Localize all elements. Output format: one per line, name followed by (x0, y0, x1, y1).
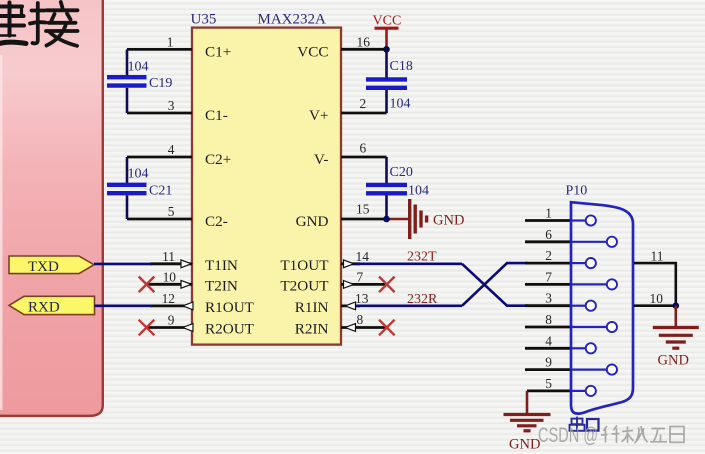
no-connect X on pin 8 (379, 320, 395, 336)
svg-text:3: 3 (168, 98, 175, 113)
pin 13 (R1IN) stub (341, 291, 369, 310)
svg-text:1: 1 (167, 34, 174, 49)
wire T1OUT to crossover (356, 262, 462, 265)
svg-text:15: 15 (356, 202, 370, 217)
pin 1 (C1+) stub (127, 34, 192, 49)
DB9 pin numbers (545, 206, 552, 391)
svg-text:C20: C20 (390, 165, 413, 180)
svg-text:7: 7 (545, 269, 552, 284)
label "chuan kou" (serial port) under P10, drawn strokes (570, 417, 599, 432)
heading text (partial) CJK "lian jie" drawn as strokes (0, 2, 78, 46)
capacitor C21 (107, 157, 172, 219)
pin 16 (VCC) stub (341, 34, 387, 49)
svg-text:R1IN: R1IN (295, 299, 329, 316)
svg-text:T2IN: T2IN (205, 277, 238, 294)
svg-text:V+: V+ (309, 107, 329, 124)
title panel (0, 0, 103, 416)
svg-text:4: 4 (168, 142, 175, 157)
svg-text:11: 11 (162, 249, 175, 264)
svg-text:C1-: C1- (205, 107, 228, 124)
svg-text:8: 8 (357, 312, 364, 327)
wire RXD to pin 12 (95, 304, 153, 307)
svg-text:TXD: TXD (28, 259, 59, 275)
svg-text:V-: V- (314, 151, 329, 168)
wire TXD to pin 11 (94, 263, 152, 266)
svg-text:4: 4 (545, 333, 552, 348)
crossover wire 232R to DB9 pin 2 (462, 263, 528, 306)
pin 2 (V+) stub (341, 96, 387, 113)
svg-text:R2IN: R2IN (295, 321, 329, 338)
svg-text:6: 6 (360, 141, 367, 156)
capacitor C20 (366, 157, 429, 219)
pin 14 (T1OUT) stub (341, 249, 369, 268)
svg-text:7: 7 (357, 269, 364, 284)
watermark CSDN @ zhuqiuwuri (538, 424, 684, 447)
svg-text:5: 5 (168, 204, 175, 219)
svg-text:13: 13 (355, 291, 369, 306)
wire DB9 pin 5 to ground (526, 391, 529, 414)
junction node at pin 16 / C18 / VCC (383, 46, 390, 53)
pin 9 (R2OUT) stub, no-connect (147, 313, 194, 332)
svg-text:5: 5 (545, 376, 552, 391)
capacitor C18 (366, 49, 413, 113)
svg-text:C2+: C2+ (205, 151, 231, 168)
pin 8 (R2IN) stub, no-connect (341, 312, 387, 331)
no-connect X on pin 10 (139, 277, 155, 293)
no-connect X on pin 9 (139, 320, 155, 336)
svg-text:1: 1 (545, 206, 552, 221)
no-connect X on pin 7 (379, 277, 395, 293)
wire DB9 pin 10 (634, 291, 676, 306)
junction node pins 10/11 (673, 302, 680, 309)
svg-text:RXD: RXD (28, 300, 60, 316)
svg-text:8: 8 (545, 312, 552, 327)
pin 3 (C1-) stub (127, 98, 192, 113)
svg-text:10: 10 (650, 291, 664, 306)
svg-text:9: 9 (168, 313, 175, 328)
pin 11 (T1IN) stub (150, 249, 192, 268)
pin 12 (R1OUT) stub (150, 291, 193, 310)
svg-text:GND: GND (296, 213, 329, 230)
power symbol VCC (373, 14, 402, 50)
port TXD (9, 256, 94, 275)
svg-text:104: 104 (128, 60, 149, 75)
pin 4 (C2+) stub (127, 142, 192, 157)
svg-text:R1OUT: R1OUT (205, 299, 255, 316)
svg-text:2: 2 (545, 248, 552, 263)
svg-text:3: 3 (545, 291, 552, 306)
svg-text:VCC: VCC (297, 43, 328, 60)
svg-text:12: 12 (162, 291, 175, 306)
svg-text:T1OUT: T1OUT (280, 257, 329, 274)
svg-text:104: 104 (128, 167, 149, 182)
svg-text:MAX232A: MAX232A (258, 12, 327, 28)
svg-text:11: 11 (651, 248, 664, 263)
svg-text:104: 104 (408, 184, 429, 199)
DB9 pin stubs (pins 1,6,2,7,3,8,4,9,5) (525, 221, 570, 391)
svg-text:16: 16 (357, 34, 371, 49)
port RXD (9, 296, 95, 315)
svg-text:U35: U35 (191, 12, 217, 28)
ground symbol right (DB9 pins 10/11) (653, 328, 699, 349)
svg-text:14: 14 (356, 249, 370, 264)
wire DB9 pin 11 (634, 248, 676, 305)
svg-text:10: 10 (163, 270, 177, 285)
pin 7 (T2OUT) stub, no-connect (341, 269, 387, 288)
svg-text:VCC: VCC (373, 14, 402, 29)
svg-text:P10: P10 (566, 184, 588, 199)
svg-text:2: 2 (360, 96, 367, 111)
ground symbol near pin 15 (sideways) (387, 199, 427, 239)
svg-text:GND: GND (433, 213, 464, 229)
crossover wire 232T to DB9 pin 3 (462, 264, 528, 306)
svg-text:232T: 232T (407, 250, 437, 265)
connector P10 body (DB9) (571, 202, 633, 413)
svg-text:C18: C18 (390, 59, 413, 74)
svg-text:C2-: C2- (205, 213, 228, 230)
svg-text:9: 9 (545, 355, 552, 370)
svg-text:C1+: C1+ (205, 43, 231, 60)
IC pin name labels (205, 43, 329, 337)
pin 15 (GND) stub (341, 202, 387, 220)
pin 10 (T2IN) stub, no-connect (147, 270, 193, 289)
svg-text:GND: GND (509, 437, 540, 453)
svg-text:T1IN: T1IN (205, 257, 238, 274)
svg-text:104: 104 (390, 97, 411, 112)
svg-text:C19: C19 (149, 76, 172, 91)
svg-text:6: 6 (545, 227, 552, 242)
pin 5 (C2-) stub (127, 204, 192, 219)
junction node at pin 15 / C20 / GND (383, 216, 390, 223)
svg-text:CSDN @: CSDN @ (538, 424, 598, 447)
svg-text:R2OUT: R2OUT (205, 321, 255, 338)
wire to right ground (674, 306, 677, 327)
wire R1IN to crossover (356, 304, 462, 307)
ground symbol below DB9 pin 5 (504, 415, 551, 431)
svg-text:C21: C21 (149, 184, 172, 199)
pin 6 (V-) stub (341, 141, 387, 158)
capacitor C19 (107, 49, 172, 113)
svg-text:T2OUT: T2OUT (280, 277, 329, 294)
svg-text:GND: GND (658, 353, 689, 369)
IC U35 MAX232A body (192, 28, 341, 345)
